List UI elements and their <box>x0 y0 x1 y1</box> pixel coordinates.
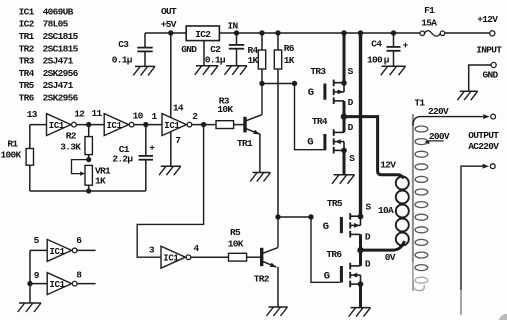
svg-text:TR4: TR4 <box>19 68 35 79</box>
svg-text:G: G <box>324 270 330 282</box>
svg-text:12V: 12V <box>380 159 396 170</box>
svg-text:R4: R4 <box>248 45 259 56</box>
svg-text:F1: F1 <box>424 5 435 16</box>
svg-text:OUTPUT: OUTPUT <box>468 130 499 141</box>
svg-text:IC1: IC1 <box>49 121 65 131</box>
svg-text:0V: 0V <box>385 252 396 263</box>
svg-text:10: 10 <box>133 111 144 122</box>
svg-text:TR5: TR5 <box>327 198 343 209</box>
svg-text:IC1: IC1 <box>50 280 66 290</box>
svg-text:100K: 100K <box>1 150 22 161</box>
svg-text:G: G <box>323 221 329 233</box>
svg-text:R6: R6 <box>284 43 295 54</box>
svg-text:12: 12 <box>74 108 85 119</box>
svg-text:100: 100 <box>367 54 383 65</box>
svg-text:1K: 1K <box>248 55 259 66</box>
svg-text:2SK2956: 2SK2956 <box>43 68 79 79</box>
svg-text:IC1: IC1 <box>50 247 66 257</box>
svg-text:IN: IN <box>228 21 239 32</box>
svg-text:C4: C4 <box>371 38 382 49</box>
svg-text:10K: 10K <box>217 104 233 115</box>
svg-text:T1: T1 <box>414 98 425 109</box>
svg-text:TR4: TR4 <box>312 116 328 127</box>
svg-text:AC220V: AC220V <box>468 141 499 152</box>
svg-text:IC1: IC1 <box>164 121 180 131</box>
svg-text:R1: R1 <box>7 139 18 150</box>
svg-text:IC2: IC2 <box>195 29 211 40</box>
svg-text:G: G <box>308 87 314 99</box>
svg-text:INPUT: INPUT <box>476 45 502 56</box>
svg-text:R5: R5 <box>230 227 241 238</box>
svg-text:4069UB: 4069UB <box>43 6 74 17</box>
svg-text:TR3: TR3 <box>19 56 35 67</box>
svg-text:+12V: +12V <box>477 14 498 25</box>
svg-text:+5V: +5V <box>161 19 177 30</box>
svg-text:TR1: TR1 <box>19 31 35 42</box>
svg-text:IC1: IC1 <box>107 121 123 131</box>
svg-text:IC1: IC1 <box>163 254 179 264</box>
svg-text:2.2μ: 2.2μ <box>112 154 133 165</box>
svg-text:2SC1815: 2SC1815 <box>43 31 79 42</box>
svg-text:GND: GND <box>483 70 499 81</box>
svg-text:TR6: TR6 <box>19 93 35 104</box>
svg-text:10A: 10A <box>378 205 394 216</box>
svg-text:TR5: TR5 <box>19 80 35 91</box>
svg-text:3.3K: 3.3K <box>60 142 81 153</box>
svg-text:0.1μ: 0.1μ <box>205 54 226 65</box>
svg-text:13: 13 <box>27 109 38 120</box>
svg-text:15A: 15A <box>421 17 437 28</box>
svg-text:TR3: TR3 <box>310 66 326 77</box>
svg-text:220V: 220V <box>428 106 449 117</box>
svg-text:C2: C2 <box>210 44 221 55</box>
svg-text:200V: 200V <box>429 131 450 142</box>
svg-text:2SC1815: 2SC1815 <box>43 43 79 54</box>
svg-text:IC1: IC1 <box>19 6 35 17</box>
svg-text:78L05: 78L05 <box>43 19 69 30</box>
svg-text:OUT: OUT <box>161 6 177 17</box>
svg-text:GND: GND <box>181 44 197 55</box>
svg-text:TR6: TR6 <box>326 249 342 260</box>
svg-text:C3: C3 <box>118 39 129 50</box>
svg-text:TR1: TR1 <box>237 138 253 149</box>
svg-text:TR2: TR2 <box>254 273 270 284</box>
svg-text:2SJ471: 2SJ471 <box>43 80 74 91</box>
svg-text:2SJ471: 2SJ471 <box>43 56 74 67</box>
svg-text:1K: 1K <box>284 55 295 66</box>
svg-text:14: 14 <box>173 103 184 114</box>
svg-text:G: G <box>307 137 313 149</box>
svg-text:10K: 10K <box>228 238 244 249</box>
svg-text:11: 11 <box>92 108 103 119</box>
svg-text:0.1μ: 0.1μ <box>112 54 133 65</box>
svg-text:2SK2956: 2SK2956 <box>43 93 79 104</box>
svg-text:1K: 1K <box>95 176 106 187</box>
svg-text:IC2: IC2 <box>19 19 35 30</box>
svg-text:R2: R2 <box>66 131 77 142</box>
svg-text:TR2: TR2 <box>19 43 35 54</box>
